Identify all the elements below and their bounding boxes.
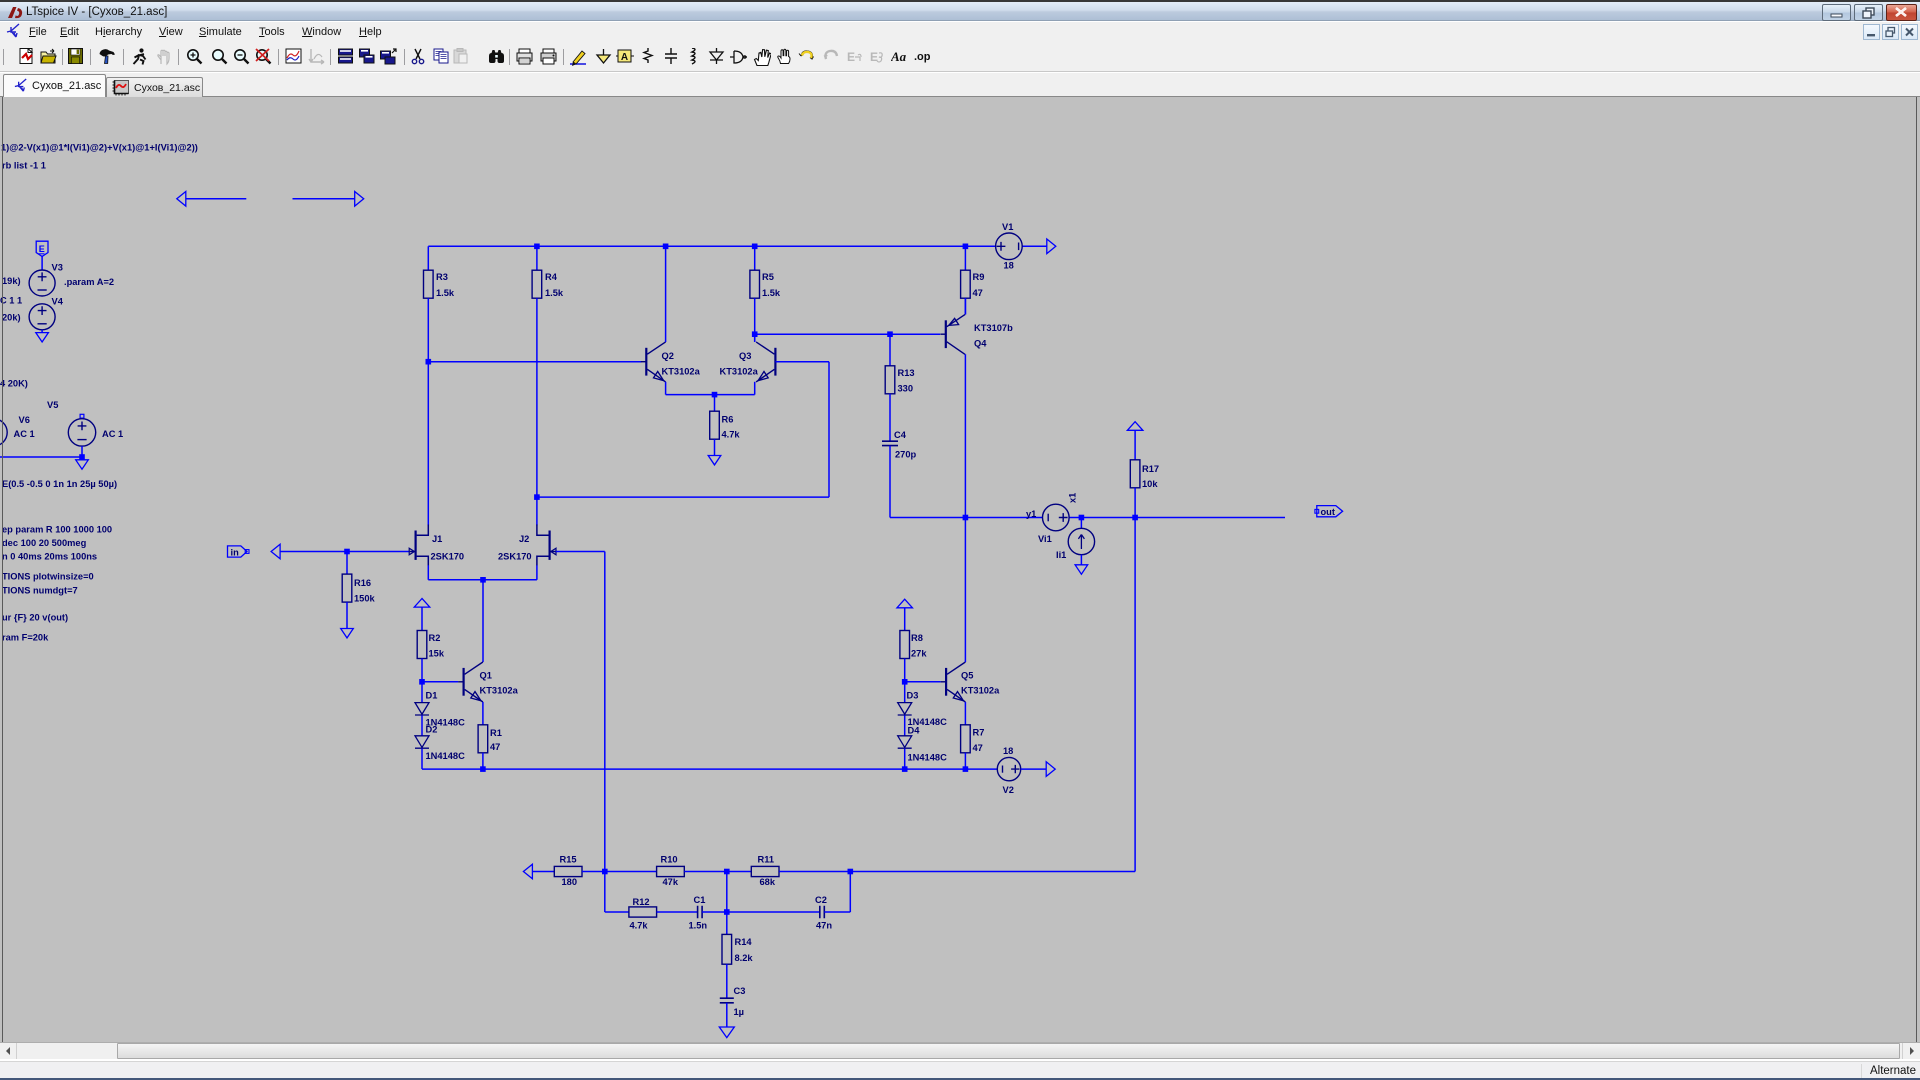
svg-text:V2: V2 [1003,785,1014,795]
wire Q4 base [755,333,940,335]
wire R11 right [779,871,1135,873]
junction R5 top [752,244,758,250]
node arrow right (V+ rail) [1047,239,1056,254]
svg-text:C 1 1: C 1 1 [0,296,22,306]
svg-text:V4: V4 [52,297,64,307]
wire Q3 emitter to R6 node [715,394,755,396]
svg-text:Q4: Q4 [974,339,987,349]
wire center node to R14 [726,912,728,934]
svg-text:R8: R8 [911,633,923,643]
ground below Ii1 [1075,565,1088,574]
wire R16 top [346,552,348,575]
svg-text:Q1: Q1 [480,671,492,681]
svg-text:R14: R14 [735,937,753,947]
diode D1 1N4148C [421,682,423,703]
wire Vi1 to x1 node [1069,517,1285,519]
ground below C3 [719,1027,734,1038]
svg-text:Vi1: Vi1 [1038,534,1052,544]
resistor R17 [1130,460,1140,488]
wire Q2 collector [665,246,667,342]
wire C3 to ground [726,1003,728,1027]
svg-text:18: 18 [1003,746,1013,756]
svg-text:R16: R16 [354,578,371,588]
transistor Q3 KT3102a [774,348,776,376]
svg-text:C4: C4 [894,430,907,440]
wire input to J1 gate [280,551,409,553]
resistor R3 [424,270,434,298]
svg-text:1N4148C: 1N4148C [426,751,466,761]
svg-text:R5: R5 [762,272,774,282]
wire R4 bottom to J2 drain [536,298,538,525]
junction Q2 base tap [426,359,432,365]
wire Q2 emitter to R6 node [666,394,715,396]
wire from left edge to V5 ground node [0,456,82,458]
svg-text:R6: R6 [722,415,734,425]
svg-text:KT3102a: KT3102a [961,686,1000,696]
wire sources to Q1 collector [482,580,484,662]
svg-text:R10: R10 [661,855,678,865]
svg-text:rb list -1 1: rb list -1 1 [2,161,46,171]
junction R7 bottom [963,766,969,772]
svg-text:V3: V3 [52,263,63,273]
svg-text:ram F=20k: ram F=20k [2,633,49,643]
wire R4 top [536,246,538,270]
svg-text:E(0.5 -0.5 0 1n 1n 25µ 50µ): E(0.5 -0.5 0 1n 1n 25µ 50µ) [2,479,117,489]
transistor Q5 KT3102a [945,668,947,696]
svg-text:18: 18 [1004,261,1014,271]
svg-text:R13: R13 [898,368,915,378]
svg-text:KT3107b: KT3107b [974,323,1013,333]
wire output feedback vertical [1134,518,1136,872]
ground below R6 [708,456,721,465]
junction R10/R11 node [724,869,730,875]
junction R9 top [963,244,969,250]
svg-text:V5: V5 [47,400,58,410]
junction R4 top [534,244,540,250]
wire Q5 base [905,681,941,683]
resistor R9 [961,270,971,298]
wire junction to R10 [605,871,657,873]
svg-text:1.5k: 1.5k [545,288,564,298]
svg-text:Q5: Q5 [961,671,973,681]
resistor R6 [710,411,720,439]
svg-text:47: 47 [973,743,983,753]
svg-text:A: A [621,52,628,63]
wire feedback node down to R12 [604,872,606,913]
svg-text:J2: J2 [519,534,529,544]
wire R7 bottom [964,753,966,769]
voltage source V4 [29,304,55,330]
wire Q2 base [428,361,641,363]
capacitor C3 1u [720,998,734,1003]
diode D4 1N4148C [904,715,906,735]
wire R1 bottom [482,753,484,769]
svg-text:D4: D4 [908,726,921,736]
svg-text:27k: 27k [911,649,927,659]
junction emitters R6 top [712,392,718,398]
svg-text:E: E [39,244,45,254]
wire R10 to R11 node [684,871,751,873]
ground below R16 [341,629,354,638]
svg-text:2SK170: 2SK170 [431,552,465,562]
wire R15 to junction [582,871,605,873]
svg-text:D2: D2 [426,725,438,735]
junction Q5 base / D3 [902,679,908,685]
svg-text:2SK170: 2SK170 [498,552,532,562]
svg-text:Aa: Aa [891,49,907,64]
svg-text:R15: R15 [560,855,577,865]
wire Q2 emitter down [665,382,667,395]
port flag out [1317,506,1343,517]
floating arrow right (top) [293,198,355,200]
junction x1 node [1079,515,1085,521]
wire E flag to V3 [41,257,43,271]
window buttons [1822,4,1851,21]
junction Q1 base / D1 [419,679,425,685]
svg-text:V1: V1 [1002,222,1013,232]
svg-text:47k: 47k [663,877,679,887]
junction R17 bottom [1132,515,1138,521]
wire feedback box horizontal [537,496,829,498]
svg-text:10k: 10k [1142,479,1158,489]
wire R9 bottom to Q4 emitter [964,298,966,314]
wire R5 top [754,246,756,270]
junction Q4 collector at output [963,515,969,521]
resistor R8 [900,631,910,659]
svg-text:C1: C1 [694,895,706,905]
junction C1/R14/C2 node [724,909,730,915]
svg-text:KT3102a: KT3102a [480,686,519,696]
svg-text:R12: R12 [633,897,650,907]
input arrow flag [271,544,280,559]
horizontal scrollbar [0,1042,1920,1059]
resistor R11 68k [751,866,779,876]
svg-text:R11: R11 [758,855,775,865]
svg-text:AC 1: AC 1 [102,429,123,439]
wire R16 bottom [346,602,348,628]
JFET J2 2SK170 (mirrored) [537,525,549,536]
wire V5 bottom [81,446,83,457]
svg-text:.op: .op [914,51,931,63]
port flag in [228,546,248,557]
svg-text:20k): 20k) [2,313,21,323]
wire Ii1 to ground [1080,555,1082,565]
mdi child buttons [1863,24,1880,40]
junction feedback to R4 column [534,494,540,500]
schematic child window frame [2,97,3,1042]
title bar [0,0,1920,21]
wire R13 to C4 [889,394,891,441]
wire Q3 emitter down [754,382,756,395]
wire J1 source down [427,565,429,580]
resistor R12 4.7k [629,907,657,917]
svg-text:1µ: 1µ [734,1007,745,1017]
svg-text:TIONS numdgt=7: TIONS numdgt=7 [2,586,78,596]
junction R16 top [344,549,350,555]
wire Q4 collector down [964,354,966,517]
junction R1 bottom [480,766,486,772]
voltage source Vi1 [1043,504,1070,531]
junction D4 bottom [902,766,908,772]
wire center node to C2 [727,911,820,913]
net flag E above V3 [36,241,48,256]
wire R3 top [427,246,429,270]
svg-text:47n: 47n [816,921,832,931]
svg-text:in: in [231,548,240,558]
wire R3 bottom to J1 drain [427,298,429,525]
tab bar [0,73,1920,97]
svg-text:D1: D1 [426,691,438,701]
svg-text:R2: R2 [429,633,441,643]
capacitor C1 1.5n [698,906,703,919]
svg-text:1.5k: 1.5k [762,288,781,298]
svg-text:E: E [870,50,878,64]
voltage source V3 [29,270,55,296]
supply flag arrow above R2 [414,599,430,608]
svg-text:J1: J1 [432,534,442,544]
wire R6 bottom [714,439,716,455]
wire R5 bottom [754,298,756,342]
floating arrow left (top) [177,192,186,207]
resistor R2 [417,631,427,659]
resistor R13 [889,334,891,366]
voltage source V6 (clipped) [0,419,7,446]
resistor R15 180 [554,866,582,876]
svg-text:C2: C2 [815,895,827,905]
resistor R5 [750,270,760,298]
voltage source V5 [80,414,84,418]
svg-text:V6: V6 [19,415,30,425]
svg-text:.param A=2: .param A=2 [64,277,114,287]
wire J2 gate [556,551,605,553]
svg-text:47: 47 [973,288,983,298]
wire bottom negative rail [422,768,997,770]
input arrow flag bottom left [523,864,532,879]
svg-text:R4: R4 [545,272,558,282]
wire common source rail [428,579,537,581]
wire arrow to R15 [532,871,554,873]
junction feedback node [602,869,608,875]
svg-text:Ii1: Ii1 [1056,550,1066,560]
svg-text:D3: D3 [907,691,919,701]
JFET J1 2SK170 [417,525,429,536]
junction R13 top tap [887,331,893,337]
svg-text:4 20K): 4 20K) [0,379,28,389]
wire Q1 emitter to R1 [482,702,484,725]
svg-text:4.7k: 4.7k [722,430,741,440]
wire Q3 collector stub [754,334,756,342]
svg-text:TIONS plotwinsize=0: TIONS plotwinsize=0 [2,572,94,582]
svg-text:KT3102a: KT3102a [720,367,759,377]
wire V2 to arrow [1021,768,1046,770]
wire top supply rail left of V1 [428,245,996,247]
svg-text:R9: R9 [973,272,985,282]
transistor Q2 KT3102a [645,348,647,376]
svg-text:1.5k: 1.5k [436,288,455,298]
wire J2 source down [536,565,538,580]
resistor R7 [961,725,971,753]
resistor R4 [532,270,542,298]
wire R17 bottom [1134,488,1136,518]
junction Q2 collector [663,244,669,250]
wire R12 to C1 [657,911,698,913]
wire R14 to C3 [726,964,728,998]
svg-text:Q2: Q2 [662,351,674,361]
supply flag arrow above R8 [897,599,913,608]
wire C2 to R11 right column [824,911,850,913]
svg-text:19k): 19k) [2,276,21,286]
wire R10 node down [726,872,728,913]
resistor R16 [342,574,352,602]
wire Q5 collector up [964,518,966,663]
wire Q3 base right [775,361,829,363]
svg-text:1.5n: 1.5n [689,921,708,931]
wire D4 to bottom rail [904,749,906,770]
wire R8 bottom [904,659,906,682]
svg-text:4.7k: 4.7k [630,921,649,931]
svg-text:15k: 15k [429,649,445,659]
svg-text:47: 47 [490,742,500,752]
svg-text:1)@2-V(x1)@1*I(Vi1)@2)+V(x1)@1: 1)@2-V(x1)@1*I(Vi1)@2)+V(x1)@1+I(Vi1)@2)… [1,143,198,153]
diode D2 1N4148C [421,715,423,735]
toolbar [0,42,1920,72]
svg-text:ep param R 100 1000 100: ep param R 100 1000 100 [2,525,112,535]
wire R2 bottom [421,659,423,682]
wire feedback box vertical [828,362,830,497]
svg-text:1N4148C: 1N4148C [908,753,948,763]
supply flag arrow above R17 [1127,422,1143,431]
svg-text:270p: 270p [895,450,917,460]
voltage source V2 [997,757,1020,780]
junction sources / Q1 collector [480,577,486,583]
svg-text:68k: 68k [760,877,776,887]
wire Q5 emitter to R7 [964,702,966,725]
resistor R1 [478,725,488,753]
capacitor C2 47n [820,906,825,919]
svg-text:R7: R7 [973,728,985,738]
wire C4 bottom to output node [889,446,891,518]
junction V5 ground node [79,454,85,460]
resistor R14 8.2k [722,934,732,964]
svg-text:x1: x1 [1068,493,1078,503]
ground below V5 [76,460,89,469]
node arrow right (V- rail) [1046,762,1055,777]
wire feedback vertical from J2 gate [604,552,606,872]
wire output rail [890,517,1043,519]
wire D2 to bottom rail [421,749,423,770]
transistor Q4 KT3107b PNP [945,320,947,348]
wire top rail from V1 to arrow [1022,245,1047,247]
current source Ii1 [1080,518,1082,529]
svg-text:R3: R3 [436,272,448,282]
status bar [0,1061,1920,1080]
svg-text:150k: 150k [354,594,376,604]
wire R9 top [964,246,966,270]
wire V4 to ground [41,330,43,333]
wire R6 top [714,395,716,412]
svg-text:8.2k: 8.2k [735,953,754,963]
voltage source V1 [996,233,1023,260]
wire Q4 emitter stub [964,298,966,314]
resistor R10 47k [657,866,685,876]
svg-text:dec 100 20 500meg: dec 100 20 500meg [2,538,87,548]
junction Q3 collector / Q4 base node [752,331,758,337]
svg-text:330: 330 [898,384,914,394]
svg-text:Q3: Q3 [739,351,751,361]
svg-text:E: E [847,50,855,64]
svg-text:KT3102a: KT3102a [662,367,701,377]
ground below V4 [36,333,49,342]
wire Q1 base [422,681,458,683]
svg-text:n 0 40ms 20ms 100ns: n 0 40ms 20ms 100ns [2,552,97,562]
svg-text:R17: R17 [1142,464,1159,474]
svg-text:ur {F} 20 v(out): ur {F} 20 v(out) [2,613,68,623]
diode D3 1N4148C [904,682,906,703]
junction R11/C2 node [848,869,854,875]
svg-text:C3: C3 [734,986,746,996]
svg-text:R1: R1 [490,728,502,738]
wire C1 to center node [702,911,727,913]
capacitor C4 270p [882,441,898,445]
svg-text:AC 1: AC 1 [14,429,35,439]
menu bar [0,22,1920,42]
svg-text:y1: y1 [1026,509,1036,519]
svg-text:out: out [1321,507,1335,517]
svg-text:180: 180 [562,877,578,887]
transistor Q1 KT3102a [463,668,465,696]
